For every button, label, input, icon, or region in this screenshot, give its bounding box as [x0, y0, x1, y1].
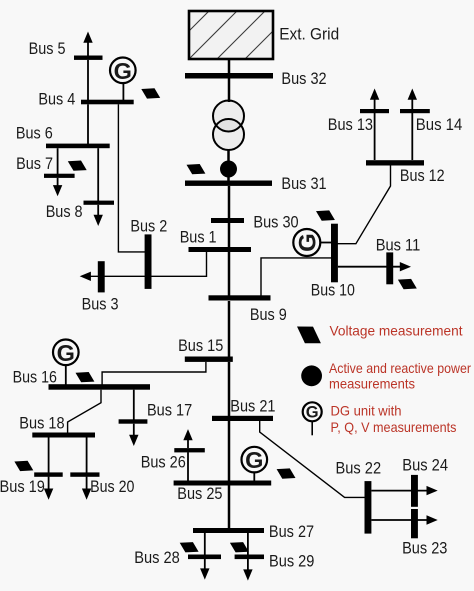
- bus 26 bar: [174, 448, 205, 452]
- bus 21 bar: [212, 416, 273, 421]
- svg-text:Bus 25: Bus 25: [177, 485, 222, 503]
- bus 17 bar: [119, 419, 148, 423]
- legend P/Q measurement dot: [301, 365, 322, 386]
- wire Bus 1 to Bus 9: [228, 252, 231, 297]
- svg-text:Bus 30: Bus 30: [253, 213, 298, 231]
- bus 25 bar: [174, 481, 272, 486]
- transformer T1: [213, 101, 244, 151]
- wire Bus 22 to Bus 23: [371, 519, 400, 521]
- voltage measurement marker at Bus 4: [141, 88, 160, 98]
- bus 31 bar: [185, 181, 272, 186]
- wire Bus 31 to Bus 1: [228, 186, 231, 248]
- bus 12 bar: [366, 160, 424, 165]
- svg-text:Bus 14: Bus 14: [416, 116, 463, 134]
- bus 1 bar: [189, 247, 252, 252]
- bus 28 bar: [188, 555, 221, 560]
- bus 30 bar: [211, 218, 244, 223]
- svg-text:G: G: [306, 404, 319, 422]
- svg-text:Bus 15: Bus 15: [178, 337, 223, 355]
- load arrow at Bus 8: [94, 205, 103, 226]
- wire Bus 27 to Bus 28: [204, 533, 206, 555]
- svg-text:Bus 18: Bus 18: [19, 415, 64, 433]
- voltage measurement marker at Bus 19: [14, 461, 33, 471]
- svg-text:Bus 13: Bus 13: [328, 116, 373, 134]
- svg-text:Ext. Grid: Ext. Grid: [279, 26, 339, 44]
- wire grid to Bus 32: [228, 59, 231, 74]
- wire Bus 26 to Bus 25: [187, 452, 189, 481]
- wire Bus 21 to Bus 25: [228, 421, 231, 481]
- voltage measurement marker at Bus 7: [68, 161, 87, 171]
- voltage measurement marker at Bus 11: [398, 279, 417, 289]
- wire Bus 4 to Bus 6: [87, 104, 89, 144]
- bus 2 bar: [145, 234, 152, 289]
- bus 15 bar: [185, 357, 233, 362]
- bus 24 bar: [411, 475, 418, 507]
- wire Bus 16 to Bus 17: [133, 390, 135, 421]
- svg-text:Bus 24: Bus 24: [402, 457, 448, 475]
- svg-text:measurements: measurements: [329, 376, 415, 391]
- svg-text:Bus 2: Bus 2: [130, 217, 167, 235]
- generation arrow at Bus 26: [183, 429, 192, 448]
- DG unit G at Bus 25: [242, 447, 268, 481]
- voltage measurement marker at Bus 29: [230, 542, 249, 552]
- bus 22 bar: [365, 481, 372, 533]
- load arrow at Bus 3: [80, 272, 91, 281]
- bus 23 bar: [411, 509, 418, 538]
- wire Bus 6 to Bus 7: [57, 148, 59, 174]
- load arrow at Bus 20: [82, 477, 91, 500]
- svg-text:Bus 32: Bus 32: [281, 70, 326, 88]
- wire Bus 12 to Bus 10: [337, 165, 391, 244]
- bus 13 bar: [360, 109, 389, 113]
- svg-text:Bus 29: Bus 29: [269, 553, 314, 571]
- svg-text:Bus 28: Bus 28: [134, 549, 180, 567]
- bus 18 bar: [32, 433, 95, 438]
- svg-text:Bus 12: Bus 12: [400, 167, 445, 185]
- wire Bus 6 to Bus 8: [97, 148, 99, 201]
- wire Bus 5 to Bus 4: [87, 60, 89, 101]
- bus 16 bar: [49, 384, 151, 390]
- svg-text:Bus 6: Bus 6: [16, 125, 53, 143]
- bus 27 bar: [193, 528, 264, 533]
- svg-text:Bus 3: Bus 3: [82, 295, 119, 313]
- wire Bus 15 to Bus 16: [102, 362, 206, 385]
- svg-text:P, Q, V measurements: P, Q, V measurements: [331, 420, 457, 435]
- load arrow at Bus 28: [200, 559, 209, 580]
- bus 32 bar: [185, 73, 273, 79]
- DG unit G at Bus 4: [110, 58, 136, 101]
- wire Bus 14 to Bus 12: [411, 113, 413, 160]
- wire Bus 16 to Bus 18: [68, 390, 101, 433]
- load arrow at Bus 29: [243, 559, 252, 581]
- svg-text:Voltage measurement: Voltage measurement: [330, 324, 463, 339]
- voltage measurement marker at Bus 16: [76, 372, 95, 382]
- svg-text:G: G: [245, 447, 263, 473]
- svg-text:Bus 8: Bus 8: [46, 203, 83, 221]
- load arrow at Bus 11 with wire from Bus 10: [338, 262, 411, 271]
- bus 29 bar: [235, 555, 264, 560]
- svg-text:Bus 27: Bus 27: [269, 523, 314, 541]
- bus 3 bar: [98, 261, 105, 292]
- svg-text:Bus 7: Bus 7: [16, 155, 53, 173]
- load arrow at Bus 14: [408, 89, 417, 110]
- load arrow at Bus 24: [400, 486, 438, 495]
- svg-text:Bus 1: Bus 1: [180, 228, 217, 246]
- svg-text:Bus 22: Bus 22: [336, 460, 382, 478]
- voltage measurement marker at Bus 10: [316, 210, 335, 220]
- svg-text:Bus 5: Bus 5: [29, 40, 66, 58]
- bus 14 bar: [400, 109, 430, 113]
- bus 11 bar: [386, 252, 393, 284]
- legend DG unit symbol: [303, 402, 322, 435]
- wire Bus 18 to Bus 20: [86, 438, 88, 473]
- bus 5 bar: [74, 56, 103, 60]
- DG unit G at Bus 10: [293, 229, 332, 256]
- bus 4 bar: [81, 100, 134, 105]
- svg-text:Bus 31: Bus 31: [281, 175, 326, 193]
- svg-text:Bus 23: Bus 23: [402, 540, 447, 558]
- load arrow at Bus 19: [44, 477, 53, 500]
- wire Bus 4 to Bus 2: [118, 104, 146, 252]
- wire Bus 15 to Bus 21: [228, 362, 231, 416]
- load arrow at Bus 17: [129, 424, 138, 446]
- DG unit G at Bus 16: [53, 340, 79, 386]
- svg-text:Bus 20: Bus 20: [90, 478, 134, 496]
- wire Bus 9 to Bus 15: [228, 301, 231, 357]
- bus 6 bar: [46, 144, 110, 149]
- wire transformer to Bus 31: [227, 150, 230, 181]
- wire Bus 32 to transformer: [228, 79, 231, 103]
- svg-text:Bus 9: Bus 9: [250, 306, 287, 324]
- svg-text:G: G: [294, 233, 321, 252]
- svg-text:G: G: [114, 58, 132, 84]
- svg-text:Bus 11: Bus 11: [376, 236, 421, 254]
- load arrow at Bus 5: [83, 32, 92, 56]
- svg-text:Bus 26: Bus 26: [141, 453, 186, 471]
- wire Bus 1 to Bus 3: [90, 252, 207, 276]
- bus 9 bar: [209, 295, 271, 300]
- P/Q measurement dot at Bus 31: [220, 161, 237, 178]
- bus 7 bar: [44, 174, 75, 178]
- svg-text:DG unit with: DG unit with: [331, 403, 402, 418]
- wire Bus 25 to Bus 27: [228, 486, 231, 529]
- svg-text:Bus 21: Bus 21: [230, 398, 275, 416]
- bus 8 bar: [84, 201, 115, 205]
- svg-text:Bus 17: Bus 17: [147, 402, 192, 420]
- voltage measurement marker at Bus 25: [277, 468, 296, 478]
- wire Bus 21 to Bus 22: [260, 421, 366, 497]
- load arrow at Bus 23: [400, 515, 438, 524]
- svg-text:Active and reactive power: Active and reactive power: [329, 361, 471, 376]
- external grid: [161, 11, 349, 59]
- wire Bus 27 to Bus 29: [247, 533, 249, 555]
- bus 19 bar: [34, 472, 63, 476]
- wire Bus 13 to Bus 12: [374, 113, 376, 160]
- bus 20 bar: [70, 472, 99, 476]
- load arrow at Bus 13: [370, 89, 379, 110]
- svg-text:Bus 19: Bus 19: [0, 478, 45, 496]
- svg-text:G: G: [57, 340, 75, 366]
- wire Bus 18 to Bus 19: [48, 438, 50, 473]
- bus 10 bar: [331, 224, 338, 283]
- svg-text:Bus 4: Bus 4: [38, 91, 75, 109]
- voltage measurement marker at Bus 31: [187, 164, 206, 174]
- svg-text:Bus 10: Bus 10: [311, 281, 355, 299]
- load arrow at Bus 7: [53, 178, 62, 196]
- wire Bus 9 to Bus 10: [261, 258, 332, 296]
- legend voltage measurement symbol: [297, 327, 321, 344]
- svg-text:Bus 16: Bus 16: [13, 368, 57, 386]
- wire Bus 22 to Bus 24: [371, 490, 400, 492]
- voltage measurement marker at Bus 28: [180, 542, 199, 552]
